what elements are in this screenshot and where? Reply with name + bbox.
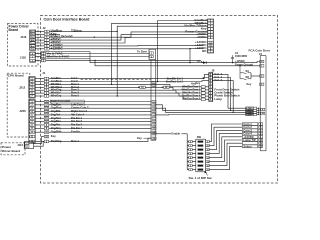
wire J212-7	[35, 95, 45, 97]
J3 pin 9	[208, 47, 213, 50]
svg-text:6: 6	[190, 149, 191, 151]
svg-text:Org/Wht: Org/Wht	[51, 130, 62, 134]
wire Row	[49, 83, 170, 85]
J116 pin Vio	[30, 48, 35, 51]
switch ground label box	[50, 100, 84, 103]
wire J118-1 to J2 VAC pin 2	[35, 53, 41, 55]
stub l	[187, 153, 189, 155]
stub r	[192, 145, 196, 147]
wire J206-10	[35, 131, 45, 133]
J1 pin 5	[44, 86, 49, 89]
stub l	[187, 161, 189, 163]
coin door dashed outline	[41, 16, 278, 184]
J3 pin 12	[208, 41, 213, 44]
wire Enable	[49, 131, 151, 133]
svg-text:J113: J113	[17, 143, 23, 147]
key stub	[144, 137, 151, 139]
wire Row	[49, 86, 173, 88]
svg-text:NC: NC	[202, 49, 207, 53]
DIP rocker 6	[198, 149, 204, 151]
inline box 2Q on Row 2	[140, 86, 146, 88]
J1 pin 3	[44, 92, 49, 95]
J118 pin 1	[30, 52, 35, 55]
J2 pin 7	[44, 39, 49, 42]
J2 pin 5	[44, 36, 49, 39]
column pin 14	[152, 137, 156, 140]
wire Row 5 to lamp	[49, 96, 201, 99]
svg-text:CPU Board: CPU Board	[8, 74, 24, 78]
label box Coin 4	[242, 132, 257, 135]
jumper W1	[240, 66, 251, 74]
wire to J4 pin3	[251, 75, 260, 77]
J1 pin 13	[44, 110, 49, 113]
enable wire a	[156, 133, 171, 135]
junction row1 drop	[111, 84, 112, 85]
junction csw4	[258, 114, 259, 115]
feed box	[201, 89, 205, 91]
J2 pin 4	[44, 30, 49, 33]
column pin 8	[152, 110, 156, 113]
coin switch label box 3	[246, 111, 254, 114]
svg-text:Org/Gry: Org/Gry	[51, 126, 62, 130]
stub l	[187, 145, 189, 147]
J116 pin Gry	[30, 36, 35, 39]
stub r	[192, 153, 196, 155]
J6 pin 3	[209, 95, 213, 98]
svg-text:Lamp: Lamp	[214, 97, 222, 101]
stub r	[192, 157, 196, 159]
DIP sw2 left pin	[189, 164, 193, 167]
J206 pin 3	[29, 107, 34, 110]
wire Col 2 into J6 pin6	[158, 80, 209, 83]
J212 pin 5	[29, 89, 34, 92]
svg-text:7: 7	[190, 145, 191, 147]
junction col2 csw3	[233, 112, 234, 113]
stub l	[187, 157, 189, 159]
column pin 9	[152, 120, 156, 123]
J1 pin 11	[44, 117, 49, 120]
J1 pin 4	[44, 89, 49, 92]
J1 pin 18	[44, 131, 49, 134]
label box Lamp T/P	[242, 139, 257, 142]
stub r	[192, 169, 196, 171]
jog Row	[175, 90, 177, 93]
DIP rocker 2	[198, 165, 204, 167]
wire J206-6	[35, 117, 45, 119]
svg-text:Select: Select	[243, 144, 251, 148]
column pin 7	[152, 117, 156, 120]
wire J118-3 to J2 pin 3	[35, 59, 41, 61]
inline box RF on Row 2	[164, 86, 170, 88]
wire Org/Grn Dia Sw 1	[49, 117, 151, 119]
column pin 5	[152, 104, 156, 107]
bus wire Wht/Brn	[112, 22, 208, 24]
J1 pin 8	[44, 127, 49, 130]
svg-text:1000 MFD: 1000 MFD	[235, 54, 247, 58]
J3 pin 8	[208, 36, 213, 39]
J3 pin 4	[208, 31, 213, 34]
J4 pin 6	[261, 108, 265, 111]
feed wire	[205, 95, 208, 97]
wire J206-4	[35, 111, 45, 113]
wire Org/Vio Dia Sw 3	[49, 124, 151, 126]
junction T/Drive	[117, 31, 118, 32]
J1 pin 2	[44, 95, 49, 98]
caption arrow	[206, 172, 208, 176]
label box Coin 3	[242, 129, 257, 132]
feed wire	[205, 92, 208, 94]
jumper W2	[240, 73, 251, 80]
coin switch 3 to bus	[257, 111, 259, 113]
junction RF	[162, 87, 163, 88]
coin switch common bus	[258, 108, 260, 114]
J4 pin 3	[260, 75, 264, 78]
long wire to CSW4	[155, 114, 254, 116]
DIP rocker 3	[198, 161, 204, 163]
column pin 3	[152, 84, 156, 87]
svg-text:+12VDC: +12VDC	[235, 59, 245, 63]
interface board bottom dashed edge	[81, 79, 152, 81]
J4 pin 5 Coin 3	[259, 129, 263, 132]
wire J212-3	[35, 83, 45, 85]
stub l	[187, 169, 189, 171]
coin switch 4 to bus	[257, 114, 259, 116]
svg-text:Col. 2: Col. 2	[214, 78, 222, 82]
column pin 10	[152, 124, 156, 127]
J3 pin 1	[208, 22, 213, 25]
svg-text:Row 5: Row 5	[71, 94, 79, 98]
wire J116 pin6 to J2	[35, 45, 44, 47]
column pin 12	[152, 131, 156, 134]
stub r	[192, 149, 196, 151]
coin switch label box 4	[246, 113, 254, 116]
stub l	[187, 165, 189, 167]
J116 pin Blk	[30, 39, 35, 42]
DIP sw7 left pin	[189, 144, 193, 147]
svg-text:2Q: 2Q	[141, 87, 144, 89]
wire Org/Blk Right Coin 3	[49, 111, 151, 113]
J6 pin 4	[209, 98, 213, 101]
J113 pin 2	[25, 145, 29, 148]
label box Key	[242, 142, 257, 145]
junction csw1	[258, 108, 259, 109]
J1 pin 1	[44, 77, 49, 80]
jog Row	[169, 84, 171, 86]
coin switch 1 box	[253, 107, 256, 109]
J206 pin 7	[29, 120, 34, 123]
To Door connector body	[149, 49, 155, 59]
label box Select	[242, 145, 257, 148]
wire J206-9	[35, 127, 45, 129]
J212 pin 2	[29, 80, 34, 83]
wire Row	[49, 92, 179, 94]
J4 pin 4 Coin 1	[259, 123, 263, 126]
feed box	[201, 95, 205, 97]
svg-text:Key: Key	[191, 82, 196, 86]
J4 pin 7 +12VDC	[259, 136, 263, 139]
svg-text:2: 2	[190, 165, 191, 167]
stub r	[192, 161, 196, 163]
svg-text:Dia Sw 4: Dia Sw 4	[71, 126, 83, 130]
wire Row b	[176, 92, 201, 94]
aux rail join	[200, 60, 203, 62]
+12VDC rail to J4 pin4	[90, 59, 260, 63]
svg-text:Sw. 1 of DIP Sw.: Sw. 1 of DIP Sw.	[189, 176, 213, 180]
column left line	[150, 60, 152, 141]
J1 pin 15	[44, 104, 49, 107]
svg-text:13: 13	[207, 157, 209, 159]
svg-text:SW: SW	[197, 135, 202, 139]
+12 drop to rail	[189, 48, 191, 62]
coin switch 3 box	[253, 111, 256, 113]
svg-text:8: 8	[190, 141, 191, 143]
DIP sw7 right pin	[206, 144, 210, 147]
J1 pin 12	[44, 114, 49, 117]
svg-text:Blk/Grn Row 5: Blk/Grn Row 5	[182, 97, 200, 101]
branch Col 1 to J6 pin8	[205, 74, 209, 78]
J4 pin 12 Lamp T/P	[259, 139, 263, 142]
J4 pin 4	[260, 60, 264, 63]
DIP sw3 left pin	[189, 160, 193, 163]
J212 pin 6	[29, 92, 34, 95]
connector J3 body	[208, 19, 214, 53]
svg-text:+5VDC: +5VDC	[197, 35, 208, 39]
wire 7VAC to To Door pin1	[46, 53, 150, 55]
dip stair 3	[209, 134, 242, 154]
junction 2Q	[138, 87, 139, 88]
ground rail to J4 pin1	[95, 60, 260, 65]
dip stair 6	[209, 143, 242, 165]
wire T/Drive from J2	[49, 30, 117, 32]
drop T/Drive to lamp row	[116, 31, 118, 96]
wire Org/Blu Dia Sw 2	[49, 121, 151, 123]
enable common drop	[186, 134, 188, 170]
diode D1	[203, 61, 206, 64]
svg-text:Key: Key	[247, 82, 252, 86]
J4 body top	[260, 55, 266, 57]
wire J206-8	[35, 124, 45, 126]
dip stair 0	[209, 124, 242, 142]
VAC wire bundle box	[41, 52, 90, 59]
long wire to CSW2	[155, 105, 254, 110]
J206 pin 8	[29, 124, 34, 127]
svg-text:+12VDC: +12VDC	[51, 46, 64, 50]
J6 pin 5	[209, 86, 213, 89]
wire Row	[49, 89, 176, 91]
J118 pin 2	[30, 55, 35, 58]
junction rail	[189, 62, 190, 63]
wire Power Ground J2 to J3	[49, 32, 207, 37]
connector J113 body	[24, 142, 33, 149]
DIP rocker 1	[198, 169, 204, 171]
J206 pin 2	[29, 104, 34, 107]
coin switch label box 2	[246, 109, 254, 112]
dip stair 4	[209, 137, 242, 158]
junction Grn/Red drop	[157, 81, 158, 82]
wire J206-5	[35, 114, 45, 116]
J212 pin 3	[29, 83, 34, 86]
svg-text:9: 9	[207, 141, 208, 143]
wire Org/Brn Left Coin 1	[49, 104, 151, 106]
junction csw2	[258, 110, 259, 111]
wire +12VDC b J2	[49, 48, 190, 50]
jog Row	[172, 87, 174, 90]
junction C1 on rail	[232, 62, 233, 63]
svg-text:Power Ground: Power Ground	[235, 63, 253, 67]
wire Switch Ground	[49, 101, 151, 103]
J212 pin 1	[29, 77, 34, 80]
svg-text:Board: Board	[9, 28, 19, 32]
J2 pin 1 VAC	[41, 55, 45, 58]
rail aux from J2	[46, 59, 200, 61]
col1 wire to CSW1	[212, 74, 246, 108]
junction csw3	[258, 112, 259, 113]
wire Red/Org to column	[49, 138, 151, 141]
svg-text:10: 10	[207, 145, 209, 147]
svg-text:15: 15	[207, 165, 209, 167]
dip stair 5	[209, 140, 242, 162]
DIP sw8 left pin	[189, 140, 193, 143]
J206 pin 12	[29, 140, 34, 143]
wire Col 1	[49, 78, 203, 80]
drop Wht/Brn to Row 1	[111, 23, 113, 84]
svg-text:Brn/Red Col 2: Brn/Red Col 2	[166, 80, 184, 84]
svg-text:Enable: Enable	[172, 132, 181, 136]
J6 pin 6	[209, 79, 213, 82]
power driver board box 2	[1, 143, 25, 155]
DIP sw3 right pin	[206, 160, 210, 163]
svg-text:J116: J116	[20, 35, 27, 39]
label box Coin 2	[242, 126, 257, 129]
wire J212-1	[35, 78, 45, 80]
power driver board box	[8, 24, 39, 67]
svg-text:Lamp T/P: Lamp T/P	[243, 138, 256, 142]
J1 pin 19	[44, 135, 49, 138]
To Door pin 2	[149, 55, 153, 58]
feed wire	[205, 86, 208, 88]
wire J212-2	[35, 81, 45, 83]
J2 pin 8	[44, 45, 49, 48]
stub l	[187, 149, 189, 151]
feed box	[201, 92, 205, 94]
svg-text:Key: Key	[137, 136, 142, 140]
connector J206 body	[29, 99, 35, 143]
J6 pin 7	[209, 76, 213, 79]
stub l	[187, 141, 189, 143]
drop Grn/Red to Col 2	[157, 21, 159, 82]
wire J206-1	[35, 101, 45, 103]
junction ground to W1	[239, 65, 240, 66]
J6 pin 9	[209, 82, 213, 85]
wire J113-2 to J1 pin2	[34, 141, 45, 146]
dip stair 1	[209, 127, 242, 145]
J2 pin 3 lamp return	[41, 59, 45, 62]
svg-text:Red/Org: Red/Org	[51, 139, 62, 143]
jog Row	[178, 93, 180, 96]
DIP rocker 4	[198, 157, 204, 159]
wire Org/Gry Dia Sw 4	[49, 127, 151, 129]
caption arrowhead	[204, 171, 206, 173]
svg-text:Coin Door Interface Board: Coin Door Interface Board	[44, 18, 91, 22]
wire J116 pin7 to J2	[35, 48, 44, 50]
J118 pin 3	[30, 59, 35, 62]
wire J116 pin5 to J2	[35, 42, 44, 44]
J212 pin 4	[29, 86, 34, 89]
J206 pin 4	[29, 110, 34, 113]
J4 pin 1	[260, 65, 264, 68]
svg-text:12: 12	[207, 153, 209, 155]
junction col1 branch	[203, 78, 204, 79]
dip stair 2	[209, 130, 242, 149]
wire J206-3	[35, 107, 45, 109]
J4 pin 11 Key	[259, 142, 263, 145]
wire J118-2 to J2 VAC pin 1	[35, 56, 41, 58]
wire 9VAC to To Door pin2	[46, 56, 150, 58]
svg-text:Driver Board: Driver Board	[2, 149, 20, 153]
J206 pin 10	[29, 131, 34, 134]
svg-text:Row 1: Row 1	[71, 139, 79, 143]
junction col1b	[230, 110, 231, 111]
svg-text:5: 5	[190, 153, 191, 155]
J2 pin 6	[44, 42, 49, 45]
feed wire	[205, 89, 208, 91]
enable wire b	[182, 133, 188, 135]
J3 pin 2	[208, 19, 213, 22]
J4 pin 8 Coin 2	[259, 126, 263, 129]
To Door pin 1	[149, 52, 153, 55]
wire J113-1 to J1 pin19	[34, 137, 45, 144]
coin switch 2 box	[253, 109, 256, 111]
DIP sw8 right pin	[206, 140, 210, 143]
junction lamp drop	[117, 95, 118, 96]
J116 pin Key	[30, 33, 35, 36]
long wire to CSW3	[155, 108, 254, 112]
DIP sw4 right pin	[206, 156, 210, 159]
connector J6 body	[209, 72, 213, 101]
J206 pin 9	[29, 127, 34, 130]
svg-text:Enable: Enable	[71, 130, 80, 134]
svg-text:11: 11	[207, 149, 209, 151]
wire J212-6	[35, 92, 45, 94]
wire J116 pin3 to J2	[35, 36, 44, 38]
junction rails	[94, 60, 95, 61]
stub wire Key	[49, 33, 60, 35]
wire Row b	[170, 86, 201, 88]
feed box	[201, 86, 205, 88]
J3 pin 3	[208, 28, 213, 31]
bus wire Vio/Brn T/Drive	[117, 26, 207, 31]
J1 pin 14	[44, 107, 49, 110]
dip stair 7	[209, 146, 242, 169]
wire +5VDC J2 to J3	[49, 35, 207, 40]
J4 pin 9 Coin 4	[259, 132, 263, 135]
bus wire Grn/Red	[158, 20, 208, 22]
wire Org/Yel 4th Coin 4	[49, 114, 151, 116]
svg-text:Key: Key	[51, 134, 56, 138]
column pin 1	[152, 81, 156, 84]
J4 body right line	[265, 56, 267, 151]
DIP sw1 right pin	[206, 168, 210, 171]
coin switch label box 1	[246, 107, 254, 110]
J6 pin 1	[209, 89, 213, 92]
svg-text:J2: J2	[43, 26, 47, 30]
svg-text:T/Drive: T/Drive	[71, 29, 82, 33]
stub r	[192, 165, 196, 167]
wire Row b	[173, 89, 201, 91]
DIP sw2 right pin	[206, 164, 210, 167]
J206 pin 5	[29, 114, 34, 117]
DIP sw6 right pin	[206, 148, 210, 151]
